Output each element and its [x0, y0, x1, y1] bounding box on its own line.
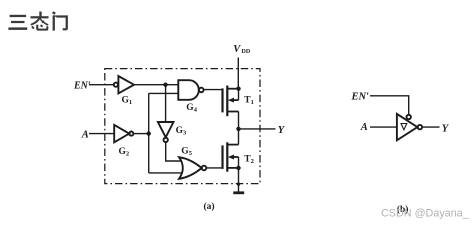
svg-text:G5: G5 [181, 146, 192, 157]
svg-text:(a): (a) [204, 201, 215, 212]
node T1 source/VDD [236, 87, 240, 91]
inverter G1 [114, 76, 134, 93]
svg-text:EN′: EN′ [351, 91, 370, 102]
dashed box border of circuit (a) [105, 69, 260, 184]
态 [31, 16, 49, 18]
门 [52, 11, 56, 15]
wire VDD supply [237, 58, 239, 89]
wire EN' control (b) [370, 96, 409, 115]
svg-text:T2: T2 [244, 155, 254, 166]
svg-text:A: A [360, 122, 368, 133]
svg-text:Y: Y [278, 125, 286, 136]
wire T2 substrate tie [238, 157, 240, 168]
svg-text:G3: G3 [176, 126, 187, 137]
wire A input [89, 133, 114, 135]
svg-text:T1: T1 [244, 95, 254, 106]
transistor T2 [223, 142, 239, 171]
arrow substrate T1 [228, 98, 234, 103]
node ground/border crossing [237, 182, 240, 185]
inverter G3 [158, 122, 174, 142]
svg-text:Y: Y [442, 123, 450, 134]
wire A input (b) [370, 126, 397, 128]
tri-state buffer (b) [397, 114, 422, 140]
transistor T1 [223, 86, 239, 117]
node A branch [147, 131, 151, 135]
三 [10, 15, 27, 17]
wire branch to G5 lower input [149, 172, 182, 174]
wire output Y [239, 128, 276, 130]
wire junction down to G3 input [165, 85, 167, 122]
svg-text:G1: G1 [122, 95, 133, 106]
wire G4 output to T1 gate [204, 89, 223, 91]
wire branch to G4 lower input [149, 92, 179, 94]
title 三态门 (hand-drawn glyphs) [8, 11, 68, 30]
wire G1 output to G4 top input [134, 84, 178, 86]
svg-text:A: A [81, 129, 89, 140]
svg-text:G4: G4 [186, 103, 197, 114]
wire T1 drain to output node [238, 112, 240, 129]
node output Y junction [236, 127, 240, 131]
ground [233, 191, 244, 194]
wire T1 substrate tie [238, 89, 240, 100]
wire T2 drain up to output node [238, 129, 240, 145]
arrow substrate T2 [228, 155, 234, 160]
wire T2 source to ground [238, 168, 240, 193]
nand gate G4 [178, 80, 203, 100]
wire output Y (b) [422, 126, 439, 128]
inverter G2 [114, 125, 133, 142]
svg-text:DD: DD [242, 49, 251, 55]
svg-text:V: V [233, 44, 241, 55]
node T2 source/ground [236, 166, 240, 170]
wire EN' input [89, 84, 114, 86]
svg-text:EN′: EN′ [73, 80, 91, 91]
wire G3 output to G5 upper input [166, 142, 182, 161]
svg-text:CSDN @Dayana_: CSDN @Dayana_ [381, 208, 470, 220]
node junction EN line to G3 [163, 83, 167, 87]
nor gate G5 [179, 157, 206, 179]
svg-text:G2: G2 [119, 147, 130, 158]
wire branch vertical [148, 93, 150, 172]
wire G2 output to branch node [133, 133, 148, 135]
wire G5 output to T2 gate [206, 167, 222, 169]
